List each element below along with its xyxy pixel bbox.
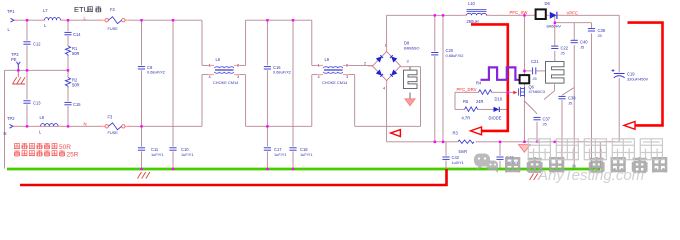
wire C22 leg	[554, 23, 556, 46]
svg-text:C21: C21	[531, 59, 539, 64]
svg-text:1: 1	[209, 63, 211, 68]
wire C9/C11 leg	[141, 20, 143, 65]
svg-text:PE: PE	[11, 57, 17, 62]
wire L9 pin3 drop	[349, 74, 355, 76]
bridge rectifier D8	[364, 42, 409, 90]
capacitor C11	[138, 148, 145, 150]
capacitor C43	[496, 157, 503, 159]
svg-text:1uF/Y1: 1uF/Y1	[274, 152, 287, 157]
svg-text:BR86SO: BR86SO	[404, 46, 419, 51]
inductor L7	[45, 18, 61, 21]
svg-text:L6: L6	[216, 57, 221, 62]
wire C20 leg A	[434, 15, 436, 51]
mosfet Q6 package square	[520, 75, 530, 83]
svg-text:5mR: 5mR	[459, 149, 468, 154]
wire L6 pin1 drop	[201, 20, 203, 65]
wire bridge pin1 riser	[386, 15, 388, 51]
wire PE left rail down to earth bus	[4, 70, 6, 168]
wire C19 leg	[618, 15, 620, 72]
svg-text:C14: C14	[73, 32, 81, 37]
capacitor C12	[23, 42, 30, 44]
svg-text:L10: L10	[468, 1, 476, 6]
wire VPFC rail after D6	[558, 14, 619, 16]
wire C18 leg	[292, 20, 294, 146]
svg-text:C13: C13	[33, 100, 41, 105]
choke L9	[324, 67, 343, 73]
wire L6 pin2 riser	[240, 64, 246, 66]
wire L9 pin4 drop	[311, 75, 313, 127]
annotation red chinese line2	[14, 150, 65, 156]
wire L9 pin1 riser	[311, 20, 313, 65]
svg-text:C12: C12	[33, 41, 41, 46]
wire gate branch rectangle	[455, 91, 479, 93]
svg-text:AnyTesting.com: AnyTesting.com	[537, 167, 644, 184]
wire leg B	[442, 15, 444, 142]
svg-text:R4: R4	[476, 81, 482, 86]
wire drain to C21	[524, 70, 531, 72]
wire C39 leg	[591, 23, 593, 29]
svg-text:330uF/450V: 330uF/450V	[627, 76, 649, 81]
inductor L10	[467, 10, 487, 16]
capacitor C20	[431, 53, 438, 55]
power arrow below source rail	[519, 145, 531, 153]
wire source leg	[523, 84, 525, 142]
red net arrow PFC_SW	[471, 127, 482, 135]
wire aux leg to earth	[599, 142, 601, 169]
watermark big jiayu outline	[528, 139, 662, 160]
red net arrow right	[624, 122, 635, 130]
svg-text:0.68uF/X2: 0.68uF/X2	[147, 70, 165, 75]
heatsink HS1	[404, 67, 418, 99]
svg-text:FUSE: FUSE	[108, 26, 119, 31]
svg-text:N: N	[84, 122, 87, 127]
wire L6 pin4 drop	[201, 75, 203, 127]
svg-text:24R: 24R	[476, 99, 484, 104]
resistor R5	[465, 107, 478, 112]
capacitor C21	[533, 67, 536, 74]
ground chassis mid right	[530, 174, 542, 181]
wire C10 leg	[172, 20, 174, 146]
svg-text:L9: L9	[325, 57, 330, 62]
svg-text:VPFC: VPFC	[567, 10, 578, 15]
svg-text:2: 2	[346, 63, 348, 68]
svg-text:R3: R3	[453, 131, 459, 136]
connector TP1	[11, 18, 14, 22]
svg-text:CHOKE CM14: CHOKE CM14	[213, 80, 239, 85]
wire bridge pin4 drop	[386, 81, 388, 142]
svg-text:4.7R: 4.7R	[462, 116, 471, 121]
svg-text:J5: J5	[561, 50, 565, 55]
power arrow below heatsink	[405, 99, 415, 106]
svg-text:CHOKE CM14: CHOKE CM14	[322, 80, 348, 85]
svg-text:1uF/Y1: 1uF/Y1	[300, 152, 313, 157]
svg-text:0.68uF/X2: 0.68uF/X2	[273, 70, 291, 75]
wire bridge pin3 to riser	[401, 66, 421, 68]
wire C16/C17 leg	[266, 20, 268, 65]
choke L6	[215, 67, 234, 73]
wire N mid segment	[246, 125, 312, 127]
resistor R2	[65, 78, 70, 88]
watermark text gongzhonghao	[506, 157, 564, 172]
svg-text:F3: F3	[108, 115, 114, 120]
svg-text:J5: J5	[580, 45, 584, 50]
svg-text:1uF/Y1: 1uF/Y1	[181, 152, 194, 157]
wire C14/R1/R2/C15 leg	[67, 20, 69, 31]
wire L mid segment	[246, 19, 312, 21]
resistor R4	[479, 90, 492, 95]
wire DC- rail	[387, 141, 458, 143]
red bracket annotation right	[628, 23, 663, 126]
svg-text:L7: L7	[43, 8, 48, 13]
wire N right segment	[355, 125, 421, 127]
svg-text:2: 2	[237, 63, 239, 68]
capacitor C37	[533, 117, 540, 119]
svg-text:3: 3	[407, 58, 409, 63]
svg-text:1u0/Y1: 1u0/Y1	[452, 160, 464, 165]
svg-text:1: 1	[385, 42, 387, 47]
junction PFC_SW thick red annotation	[471, 24, 508, 130]
wire C38 diagonal and leg	[562, 88, 574, 96]
capacitor C9	[138, 67, 145, 69]
svg-text:0.68uF/X2: 0.68uF/X2	[446, 53, 464, 58]
wire C40 leg	[573, 23, 575, 41]
capacitor C16	[264, 67, 271, 69]
capacitor C18	[289, 148, 296, 150]
annotation red chinese line1	[14, 143, 57, 149]
wire L9 pin2 to bridge	[349, 64, 373, 66]
wire drain leg	[523, 15, 525, 74]
diode D6	[550, 12, 557, 19]
resistor R3 shunt	[458, 140, 474, 143]
wire L6 pin3 drop	[240, 74, 246, 76]
svg-text:50R: 50R	[72, 51, 80, 56]
wire C12/C13 leg	[26, 20, 28, 40]
svg-text:1uF/Y1: 1uF/Y1	[151, 152, 164, 157]
svg-text:J5: J5	[533, 76, 537, 81]
svg-text:TP2: TP2	[7, 116, 15, 121]
wire C37 leg	[536, 122, 538, 142]
ground chassis below C11	[138, 172, 150, 179]
capacitor C19 bulk	[612, 69, 625, 78]
capacitor C13	[23, 101, 30, 103]
svg-text:2: 2	[364, 60, 366, 65]
svg-text:F2: F2	[110, 7, 116, 12]
wire C42 leg	[445, 142, 447, 156]
ground chassis PE	[13, 70, 26, 84]
wire AC2 riser	[420, 67, 422, 127]
svg-text:25R: 25R	[67, 151, 79, 158]
wire C43 leg	[499, 142, 501, 156]
fuse F2	[105, 17, 125, 24]
mosfet Q6 symbol	[519, 87, 525, 97]
svg-text:J5: J5	[543, 121, 547, 126]
inductor L8	[41, 124, 59, 127]
wire DC+ rail	[387, 14, 466, 16]
gate arrow red	[513, 91, 517, 95]
wire D6 sub-rail	[554, 15, 556, 22]
capacitor C39	[588, 29, 595, 31]
svg-text:R5: R5	[463, 99, 469, 104]
protective earth red line	[20, 169, 447, 185]
svg-text:3: 3	[346, 74, 348, 79]
junction dot gate	[507, 91, 509, 93]
svg-text:FUSE: FUSE	[108, 130, 119, 135]
wire L rail left segment	[5, 15, 620, 172]
diode D10	[494, 107, 500, 112]
capacitor C38	[558, 96, 565, 98]
svg-text:50R: 50R	[72, 83, 80, 88]
svg-text:TP1: TP1	[7, 9, 15, 14]
svg-text:50R: 50R	[59, 144, 71, 151]
capacitor C15	[64, 102, 71, 104]
svg-text:D6: D6	[545, 1, 551, 6]
wire source diagonal to C37	[524, 101, 533, 110]
capacitor C42	[442, 157, 449, 159]
svg-text:L8: L8	[40, 115, 45, 120]
waveform annotation purple	[481, 67, 521, 79]
wire PE horizontal	[5, 69, 69, 71]
wire E2 bottom stub and diagonal	[554, 84, 556, 91]
heatsink HS2	[546, 62, 565, 84]
capacitor C22	[551, 46, 558, 48]
resistor R1	[65, 46, 70, 56]
connector TP2	[10, 124, 13, 128]
watermark wechat icon	[474, 154, 498, 174]
capacitor C40	[571, 40, 578, 42]
svg-text:8A60HV: 8A60HV	[547, 24, 562, 29]
wire N rail left segment	[13, 125, 102, 127]
pin stubs salmon	[13, 15, 562, 126]
capacitor C14	[64, 32, 71, 34]
svg-text:ETU: ETU	[74, 5, 89, 14]
capacitor C17	[264, 148, 271, 150]
svg-text:DIODE: DIODE	[489, 116, 502, 121]
earth bus green	[7, 168, 600, 171]
red net arrow near bridge	[391, 130, 401, 137]
svg-text:47N60C3: 47N60C3	[529, 89, 545, 94]
diode D6 package square	[536, 9, 546, 19]
svg-text:1: 1	[318, 63, 320, 68]
svg-text:J5: J5	[568, 100, 572, 105]
svg-text:D10: D10	[495, 97, 503, 102]
fuse F3	[105, 123, 125, 130]
svg-text:N: N	[4, 131, 7, 136]
svg-text:C15: C15	[73, 102, 81, 107]
svg-text:PFC_DRV: PFC_DRV	[457, 87, 477, 92]
svg-text:J5: J5	[598, 33, 602, 38]
wire chassis stub mid	[534, 169, 536, 173]
svg-text:3: 3	[237, 74, 239, 79]
capacitor C10	[169, 148, 176, 150]
